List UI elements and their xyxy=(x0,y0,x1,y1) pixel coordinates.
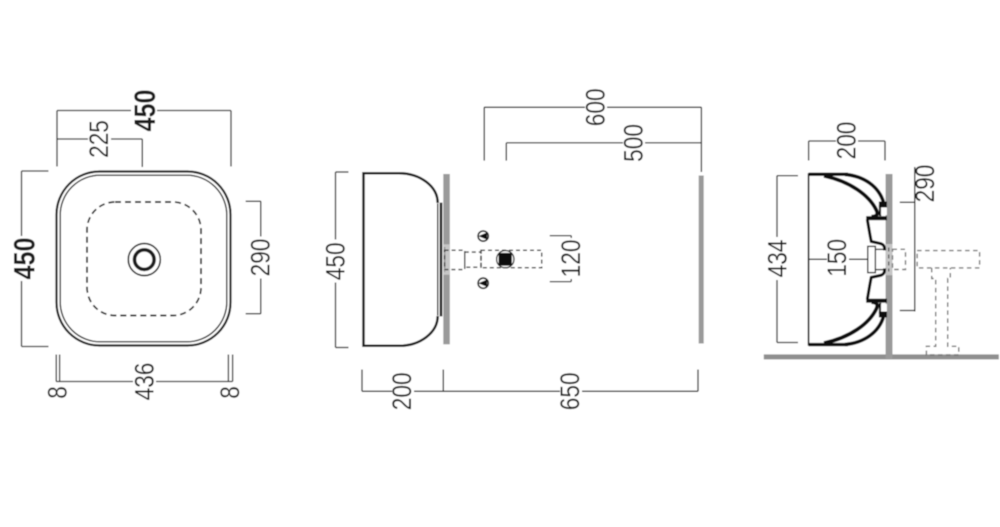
drain hole inner circle xyxy=(135,250,155,270)
dimension 434 xyxy=(777,176,798,343)
back wall slants bottom xyxy=(867,268,884,299)
svg-text:450: 450 xyxy=(321,242,351,280)
wall bar xyxy=(886,174,893,359)
svg-text:450: 450 xyxy=(7,237,41,279)
dimension 290 (right view) xyxy=(900,167,915,312)
dimension 290 right xyxy=(246,201,261,313)
centre line 150 xyxy=(809,258,868,260)
basin inner rim edge xyxy=(60,175,227,342)
svg-text:436: 436 xyxy=(129,363,159,401)
dimension 120 xyxy=(550,236,571,282)
svg-text:8: 8 xyxy=(215,386,245,399)
top outer curve xyxy=(845,174,884,202)
dimension 450 middle-left xyxy=(336,172,349,348)
basin section xyxy=(809,173,887,345)
siphon top bar xyxy=(917,251,980,268)
svg-text:200: 200 xyxy=(387,372,417,410)
dimension 225 top xyxy=(57,139,142,167)
dimension 500 xyxy=(506,143,701,161)
inner bowl dashed edge xyxy=(87,202,201,316)
back wall slants top xyxy=(867,220,884,251)
drain socket outline xyxy=(868,246,885,272)
dimension 200 / 650 bottom xyxy=(362,370,698,392)
dimension 600 xyxy=(484,107,701,172)
bottom outer curve xyxy=(845,316,884,344)
top rim xyxy=(809,173,848,176)
svg-text:290: 290 xyxy=(246,239,276,277)
svg-text:120: 120 xyxy=(556,239,586,277)
mounting bolt top xyxy=(478,231,488,241)
pipe stub xyxy=(893,249,906,269)
bottom inner bowl curve xyxy=(824,302,877,343)
svg-text:200: 200 xyxy=(832,122,862,160)
top inner bowl curve xyxy=(824,176,877,217)
dashed waste pipe through wall xyxy=(888,248,890,272)
siphon neck xyxy=(926,268,958,355)
svg-text:650: 650 xyxy=(555,372,585,410)
wall bar xyxy=(443,174,450,344)
svg-text:8: 8 xyxy=(43,386,73,399)
svg-text:600: 600 xyxy=(581,88,611,126)
overflow pocket top xyxy=(866,202,887,221)
dimension 450 top xyxy=(57,111,231,167)
left front edge xyxy=(808,173,810,345)
basin profile xyxy=(364,173,442,346)
right wall bar xyxy=(699,176,704,344)
dimension 436 / 8 / 8 bottom xyxy=(56,355,232,382)
mounting bolt bottom xyxy=(478,278,488,288)
bottom rim xyxy=(809,343,848,346)
overflow pocket bottom xyxy=(866,299,887,318)
drain pipe dashed (tail at wall) xyxy=(445,250,542,269)
svg-text:434: 434 xyxy=(763,239,793,277)
svg-text:290: 290 xyxy=(910,165,940,203)
svg-text:450: 450 xyxy=(128,89,162,131)
svg-text:500: 500 xyxy=(619,124,649,162)
floor xyxy=(764,354,999,359)
basin outer rim xyxy=(57,172,231,346)
svg-text:150: 150 xyxy=(822,239,852,277)
drain hole outer circle xyxy=(128,244,160,276)
dimension 150 xyxy=(827,237,849,280)
svg-text:225: 225 xyxy=(84,120,114,158)
dimension 200 (right view) xyxy=(809,141,885,161)
drain circle + black square xyxy=(497,251,514,268)
dimension 450 left xyxy=(22,171,49,347)
